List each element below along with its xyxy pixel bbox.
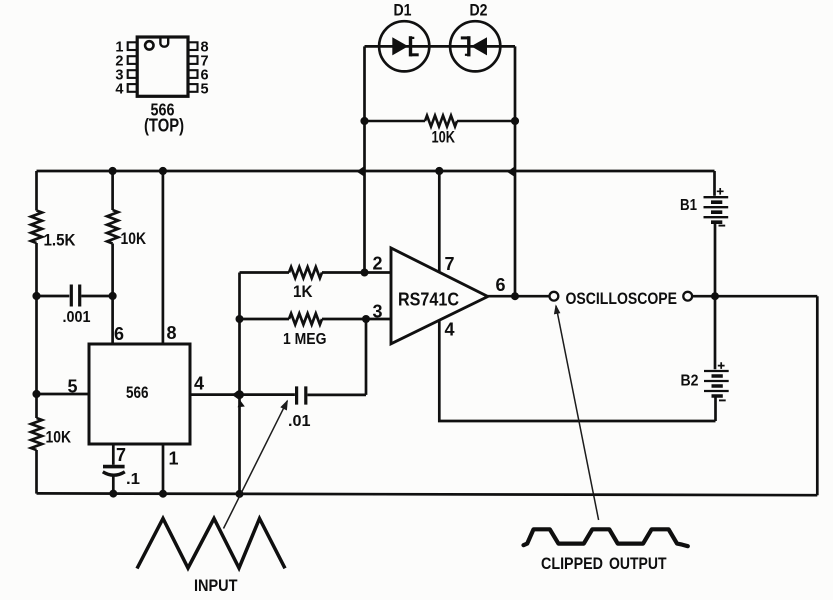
wire-jog mark right riser over rail <box>507 166 515 177</box>
capacitor .1 curved plate <box>103 472 125 475</box>
wire pin-8 column riser <box>162 171 165 344</box>
node dot mid column / bottom rail <box>236 490 244 498</box>
svg-text:8: 8 <box>167 323 177 343</box>
diode D2 cathode bar hook <box>461 36 469 39</box>
resistor 10K (feedback) <box>365 116 516 127</box>
node dot mid column / pin-4 wire <box>235 390 244 399</box>
node dot rail / pin-8 column <box>159 167 167 175</box>
svg-text:10K: 10K <box>46 429 72 447</box>
diode D2 circle <box>450 21 500 71</box>
svg-text:4: 4 <box>445 320 455 340</box>
svg-text:6: 6 <box>114 324 124 344</box>
pin stub 2 <box>128 56 138 64</box>
pin stub 3 <box>128 70 138 78</box>
capacitor .1 top plate <box>103 465 125 469</box>
wire scope right to corner <box>692 295 817 298</box>
svg-text:OSCILLOSCOPE: OSCILLOSCOPE <box>566 289 678 308</box>
diode D1 triangle (anode, points right) <box>392 37 408 55</box>
battery B1 plus sign <box>717 188 724 195</box>
battery B1 short plates <box>711 202 722 222</box>
diode D1 cathode bar <box>409 36 412 56</box>
diode D2 cathode bar <box>467 36 470 56</box>
terminal circle (scope right) <box>683 292 692 301</box>
notch (top-center index) <box>160 38 168 46</box>
svg-text:CLIPPED: CLIPPED <box>541 554 603 573</box>
wire 10K column riser (lower, to pin 6) <box>111 244 114 345</box>
node dot bottom rail / pin-1 <box>159 490 167 498</box>
node dot pin-5 / left rail <box>32 390 40 398</box>
pin stub 1 <box>128 42 138 50</box>
wire-jog mark left riser over rail <box>357 166 365 177</box>
wire diode row <box>365 45 516 48</box>
wire diode branch right riser (to output node) <box>514 46 517 296</box>
annotation arrow to .01 (from INPUT waveform) <box>224 401 288 529</box>
capacitor .001 right lead <box>81 295 112 298</box>
pin stub 8 <box>188 42 198 50</box>
wire left vertical rail (middle) <box>35 243 38 418</box>
wire-jog mark at pin-4 node <box>232 389 240 400</box>
node dot scope line / battery column <box>711 292 719 300</box>
svg-text:D2: D2 <box>470 2 488 20</box>
svg-text:.1: .1 <box>126 471 140 488</box>
battery B2 short plates <box>712 376 723 396</box>
battery B2 minus sign <box>719 399 726 401</box>
svg-text:OUTPUT: OUTPUT <box>609 554 667 573</box>
diode D2 cathode bar bottom tick <box>465 54 469 56</box>
wire mid column (1K/1MEG left ends down to bottom rail) <box>238 273 241 495</box>
svg-text:1K: 1K <box>293 283 313 301</box>
node dot .001 left <box>32 292 40 300</box>
node dot diode riser / 10K right <box>511 117 519 125</box>
resistor 10K (upper left) <box>107 210 118 244</box>
capacitor .01 plates <box>297 386 306 404</box>
pin stub 5 <box>188 84 198 92</box>
annotation arrowhead at .01 <box>280 400 288 411</box>
annotation arrow to clipped waveform <box>556 306 599 520</box>
diode D1 cathode bar top tick <box>411 37 415 39</box>
annotation arrowhead at scope terminal <box>554 304 561 314</box>
pin stub 4 <box>128 84 138 92</box>
diode D2 triangle (anode, points left) <box>471 37 487 55</box>
waveform INPUT (triangle wave) <box>137 519 285 569</box>
svg-text:1: 1 <box>169 449 179 469</box>
svg-text:7: 7 <box>445 254 455 274</box>
node dot .001 right <box>109 292 117 300</box>
svg-text:7: 7 <box>116 445 126 465</box>
node dot 1K right / diode riser <box>361 269 369 277</box>
svg-text:.01: .01 <box>288 413 311 430</box>
resistor 1K (with leads) <box>240 267 392 278</box>
wire B1 top lead <box>713 171 716 196</box>
waveform CLIPPED OUTPUT (clipped trapezoid wave) <box>524 529 688 546</box>
node dot rail / pin7 riser <box>435 167 443 175</box>
node dot rail / 10K column <box>109 167 117 175</box>
barb mark on mid column below pin-4 node <box>238 401 245 408</box>
svg-text:6: 6 <box>496 275 506 295</box>
svg-text:10K: 10K <box>121 230 147 248</box>
battery B2 plus sign <box>718 362 725 369</box>
capacitor .001 left lead <box>37 295 70 298</box>
svg-text:566: 566 <box>126 384 149 402</box>
wire op-amp pin 7 riser <box>438 171 441 272</box>
wire left vertical rail (lower) <box>35 450 38 494</box>
wire right edge vertical <box>816 296 819 495</box>
capacitor .001 plates <box>71 285 79 307</box>
svg-text:.001: .001 <box>63 309 91 326</box>
wire 10K column riser (upper) <box>111 171 114 210</box>
wire pin 4 lead <box>190 393 295 396</box>
svg-text:4: 4 <box>194 374 204 394</box>
svg-text:D1: D1 <box>394 2 412 20</box>
wire B2 bottom lead <box>714 396 717 421</box>
wire pin 5 lead <box>37 393 90 396</box>
svg-text:1.5K: 1.5K <box>44 232 76 250</box>
svg-text:4: 4 <box>115 81 123 97</box>
wire .01 to pin-3 riser <box>365 319 368 395</box>
capacitor .01 right lead <box>308 394 367 397</box>
svg-text:RS741C: RS741C <box>398 290 459 310</box>
node dot bottom rail / pin-7 cap <box>109 490 117 498</box>
wire bottom rail <box>37 493 818 495</box>
pin stub 6 <box>188 70 198 78</box>
IC U-dip 566 package body (top view) <box>137 37 188 96</box>
wire pin 1 lead <box>162 444 165 494</box>
resistor 1MEG (with leads) <box>240 314 392 325</box>
wire top supply rail <box>37 170 715 173</box>
IC 566 box <box>89 344 190 444</box>
terminal circle (scope left) <box>550 292 559 301</box>
wire diode branch left riser (to pin 2 node) <box>363 46 366 272</box>
diode D1 circle <box>379 21 429 71</box>
svg-text:B1: B1 <box>680 197 697 214</box>
wire B1 to scope node <box>714 224 717 297</box>
node dot mid column / 1MEG <box>236 315 244 323</box>
svg-text:1 MEG: 1 MEG <box>283 331 327 348</box>
svg-text:5: 5 <box>201 81 209 97</box>
diode D1 cathode bar foot <box>411 53 419 56</box>
battery B1 minus sign <box>719 225 726 227</box>
svg-text:INPUT: INPUT <box>194 577 238 595</box>
node dot output / right diode riser <box>511 292 519 300</box>
resistor 1.5K <box>31 211 42 244</box>
svg-text:B2: B2 <box>681 373 699 390</box>
svg-text:2: 2 <box>373 254 383 274</box>
battery B2 long plates <box>704 371 729 391</box>
svg-text:5: 5 <box>68 377 78 397</box>
wire pin 7 lead <box>112 444 115 465</box>
svg-text:10K: 10K <box>432 128 456 147</box>
resistor 10K (lower left) <box>31 418 42 450</box>
op-amp RS741C triangle <box>391 248 488 344</box>
wire op-amp output lead <box>488 295 550 298</box>
wire left vertical rail (upper) <box>35 171 38 211</box>
svg-text:3: 3 <box>373 302 383 322</box>
battery B1 long plates <box>704 197 729 217</box>
capacitor .1 bottom lead <box>112 475 115 494</box>
node dot 1MEG right / .01 riser <box>362 315 370 323</box>
node dot diode riser / 10K left <box>360 117 368 125</box>
pin-1 index dot <box>145 41 153 49</box>
wire scope node to B2 <box>714 296 717 369</box>
svg-text:(TOP): (TOP) <box>144 116 184 136</box>
wire op-amp pin 4 drop <box>439 320 715 421</box>
pin stub 7 <box>188 56 198 64</box>
